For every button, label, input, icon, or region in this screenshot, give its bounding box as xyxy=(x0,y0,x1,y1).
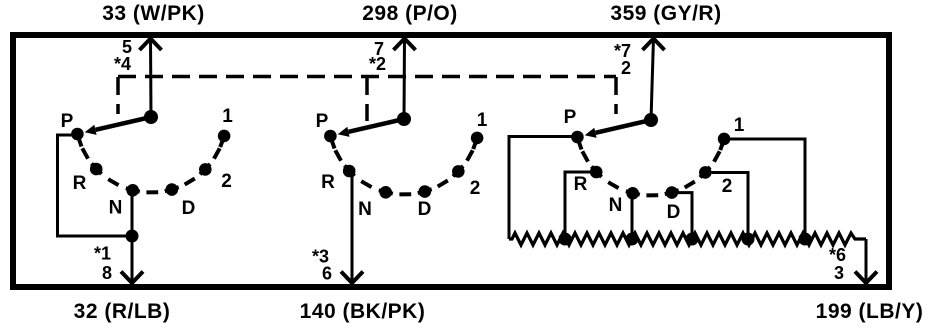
wire R contact to resistor tap S3 xyxy=(565,172,596,239)
svg-text:32 (R/LB): 32 (R/LB) xyxy=(74,300,171,323)
node wiper pivot S2 xyxy=(397,112,411,126)
svg-text:2: 2 xyxy=(221,171,232,192)
wire D contact to resistor tap S3 xyxy=(672,193,692,239)
wire P contact to resistor S3 xyxy=(509,137,577,240)
contact 1 S3 xyxy=(718,133,731,146)
arrowhead down S3 xyxy=(855,272,877,284)
node resistor tap 1 S3 xyxy=(799,233,812,246)
contact 2 S2 xyxy=(452,165,465,178)
contact N S1 xyxy=(126,184,139,197)
wiper arm S1 xyxy=(96,117,152,130)
svg-text:8: 8 xyxy=(102,263,112,283)
wire to top connector S3 xyxy=(651,38,654,120)
node wiper pivot S1 xyxy=(144,110,158,124)
svg-text:P: P xyxy=(564,107,577,128)
svg-text:199 (LB/Y): 199 (LB/Y) xyxy=(816,300,924,323)
contact D S3 xyxy=(666,186,679,199)
svg-text:P: P xyxy=(61,111,74,132)
svg-text:*4: *4 xyxy=(114,54,131,74)
svg-text:1: 1 xyxy=(734,115,745,136)
wire 1 contact to resistor tap S3 xyxy=(724,139,805,239)
contact R S1 xyxy=(90,163,103,176)
wire P contact to bus S1 xyxy=(58,135,133,236)
wire resistor to bottom connector S3 xyxy=(865,239,868,282)
svg-text:*2: *2 xyxy=(369,54,386,74)
node resistor tap D S3 xyxy=(686,233,699,246)
svg-text:D: D xyxy=(182,198,196,219)
contact P S3 xyxy=(571,131,584,144)
contact 2 S3 xyxy=(699,166,712,179)
contact N S2 xyxy=(379,186,392,199)
svg-text:*6: *6 xyxy=(829,245,846,265)
svg-text:N: N xyxy=(358,199,372,220)
svg-text:N: N xyxy=(609,195,623,216)
svg-text:N: N xyxy=(109,198,123,219)
contact D S1 xyxy=(166,183,179,196)
contact R S3 xyxy=(590,166,603,179)
node resistor tap 2 S3 xyxy=(742,233,755,246)
svg-text:359 (GY/R): 359 (GY/R) xyxy=(610,2,721,25)
arrowhead up S3 xyxy=(643,39,665,51)
contact 1 S2 xyxy=(471,132,484,145)
svg-text:D: D xyxy=(418,199,432,220)
node wiper pivot S3 xyxy=(644,113,658,127)
node resistor tap R S3 xyxy=(559,233,572,246)
svg-text:1: 1 xyxy=(477,110,488,131)
svg-text:298 (P/O): 298 (P/O) xyxy=(362,2,458,25)
switch assembly outline xyxy=(13,35,889,287)
wire 2 contact to resistor tap S3 xyxy=(705,173,748,240)
svg-text:2: 2 xyxy=(722,176,733,197)
contact 1 S1 xyxy=(218,130,231,143)
resistor chain xyxy=(509,233,866,245)
wire to top connector S1 xyxy=(149,38,153,117)
wire N contact to resistor tap S3 xyxy=(631,193,634,239)
svg-text:1: 1 xyxy=(222,106,233,127)
node junction S1 xyxy=(126,230,139,243)
contact D S2 xyxy=(419,185,432,198)
svg-text:R: R xyxy=(73,173,87,194)
svg-text:*1: *1 xyxy=(94,244,111,264)
arrowhead down S1 xyxy=(121,272,143,284)
svg-text:D: D xyxy=(667,202,681,223)
wire R contact down S2 xyxy=(351,171,354,282)
svg-text:2: 2 xyxy=(621,58,631,78)
dashed link drop at switch 3 xyxy=(614,77,618,114)
wire N contact down S1 xyxy=(131,190,134,282)
svg-text:140 (BK/PK): 140 (BK/PK) xyxy=(300,300,426,323)
svg-text:3: 3 xyxy=(834,263,844,283)
arrowhead up S1 xyxy=(140,39,162,51)
svg-text:P: P xyxy=(316,111,329,132)
dashed link drop at switch 2 xyxy=(365,77,369,121)
svg-text:33 (W/PK): 33 (W/PK) xyxy=(102,2,205,25)
arrowhead down S2 xyxy=(341,272,363,284)
contact arc S1 xyxy=(78,136,224,193)
node resistor tap N S3 xyxy=(626,233,639,246)
contact R S2 xyxy=(343,165,356,178)
contact N S3 xyxy=(626,187,639,200)
svg-text:6: 6 xyxy=(322,264,332,284)
svg-text:R: R xyxy=(321,172,335,193)
dashed link drop at switch 1 xyxy=(116,77,120,114)
svg-text:R: R xyxy=(574,174,588,195)
wiper arm S2 xyxy=(349,119,405,132)
contact arc S2 xyxy=(331,138,477,195)
svg-text:2: 2 xyxy=(470,178,481,199)
contact arc S3 xyxy=(578,139,724,196)
wire to top connector S2 xyxy=(403,38,407,119)
arrowhead up S2 xyxy=(394,39,416,51)
contact P S1 xyxy=(71,128,84,141)
contact 2 S1 xyxy=(199,163,212,176)
wiper arm S3 xyxy=(596,120,652,133)
dashed mechanical link horizontal xyxy=(118,75,616,79)
contact P S2 xyxy=(324,130,337,143)
